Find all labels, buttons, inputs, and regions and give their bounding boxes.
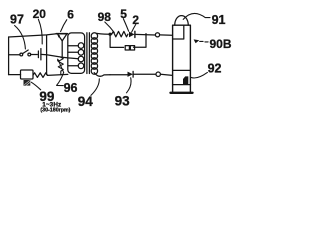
wire switch to capacitor <box>31 54 38 56</box>
wire bottom rail right segment <box>110 74 127 76</box>
svg-text:20: 20 <box>33 7 47 21</box>
leader 93 <box>127 78 132 93</box>
leader 2 <box>132 24 136 32</box>
wire top rail left <box>9 34 57 37</box>
leader 98 <box>105 22 115 33</box>
diode 93 <box>128 72 133 77</box>
leader 92 <box>191 72 208 78</box>
transformer core <box>86 33 88 74</box>
leader 97 <box>15 26 26 50</box>
parallel branch right vertical <box>134 34 147 48</box>
transformer secondary winding 94 <box>91 33 97 39</box>
primary rung 3 <box>68 65 78 67</box>
terminal circle top <box>155 33 159 37</box>
svg-text:2: 2 <box>132 13 139 27</box>
vibrator divider 2 <box>173 84 191 86</box>
switch 97 <box>20 53 23 56</box>
wire vertical mid branch <box>46 35 48 74</box>
wire secondary top lead <box>97 32 110 35</box>
leader 6 <box>61 20 67 32</box>
wire bottom rail left segment <box>9 74 21 76</box>
vibrator inner cap square <box>173 25 184 39</box>
potentiometer 96 <box>58 57 63 75</box>
svg-text:96: 96 <box>64 81 78 95</box>
primary rung 2 <box>68 51 78 53</box>
wire diode to terminal <box>135 33 155 36</box>
wire switch row <box>9 54 20 56</box>
terminal circle bottom <box>156 72 160 76</box>
svg-text:97: 97 <box>10 13 24 27</box>
coil loop 2 <box>130 46 134 50</box>
wire terminal to vibrator top <box>160 34 172 36</box>
leader 96 <box>57 73 64 86</box>
diode 2 <box>129 32 135 38</box>
parallel branch left vertical <box>110 34 124 47</box>
junction node <box>109 33 112 36</box>
primary turn circle 3 <box>78 56 84 62</box>
vibrator body 90B <box>173 25 191 93</box>
svg-text:90B: 90B <box>210 37 232 51</box>
pot arrow <box>58 60 63 72</box>
primary rung 1 <box>68 45 78 47</box>
wire secondary bottom lead <box>94 73 110 77</box>
resistor R bottom-left <box>33 73 47 78</box>
leader 99 <box>31 82 41 90</box>
capacitor 20 <box>37 51 39 58</box>
weight element 92 <box>183 76 188 84</box>
coil loop 1 <box>125 46 129 50</box>
oscillator block 99 <box>21 70 34 79</box>
resistor 5 <box>110 31 128 36</box>
wire capacitor to pot row <box>41 54 79 58</box>
svg-text:98: 98 <box>98 10 112 24</box>
svg-text:93: 93 <box>115 94 131 109</box>
transistor 6 <box>56 33 67 35</box>
arrow 90B <box>194 39 200 43</box>
svg-text:94: 94 <box>78 94 94 109</box>
primary turn circle 1 <box>78 43 84 49</box>
wire bottom rail to transformer <box>48 74 68 75</box>
svg-text:(30-180rpm): (30-180rpm) <box>40 108 70 114</box>
primary turn circle 2 <box>78 50 84 56</box>
leader 91 <box>183 13 210 19</box>
vibrator dome 91 <box>175 16 189 26</box>
leader 5 <box>123 19 128 32</box>
leader 20 <box>38 19 42 44</box>
transformer primary loop <box>68 33 85 74</box>
wire left vertical <box>8 37 10 75</box>
vibrator divider 1 <box>173 69 191 71</box>
svg-text:5: 5 <box>120 7 127 21</box>
wire terminal to vibrator bottom <box>161 74 173 75</box>
svg-text:91: 91 <box>212 13 226 27</box>
svg-text:6: 6 <box>67 7 74 21</box>
ground hatched block under 99 <box>24 80 31 86</box>
primary turn circle 4 <box>78 63 84 69</box>
svg-text:92: 92 <box>208 62 222 76</box>
leader 94 <box>91 79 99 96</box>
